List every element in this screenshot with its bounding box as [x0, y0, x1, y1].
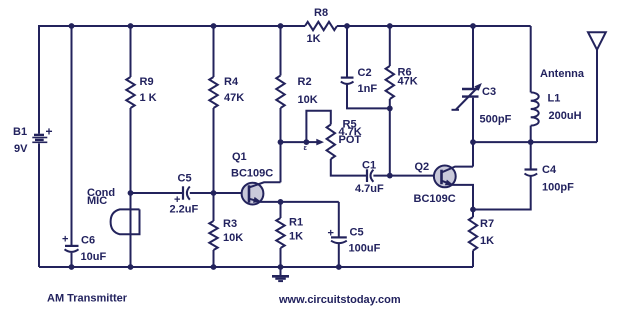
wire R5 bottom to C1 — [331, 159, 367, 176]
wire R4 / R3 branch vertical — [213, 26, 215, 267]
svg-text:R1: R1 — [289, 217, 303, 229]
wire collector node to potentiometer wiper — [281, 141, 307, 143]
resistor R1 — [276, 202, 303, 267]
svg-text:Q1: Q1 — [232, 151, 247, 163]
svg-text:1K: 1K — [480, 235, 494, 247]
svg-text:10K: 10K — [223, 232, 243, 244]
battery B1 — [13, 125, 53, 156]
condenser microphone MIC — [87, 187, 140, 234]
potentiometer R5 4.7K POT — [327, 119, 362, 160]
variable capacitor C3 — [452, 83, 512, 126]
svg-text:C4: C4 — [542, 164, 557, 176]
svg-text:C1: C1 — [362, 160, 376, 172]
svg-text:+: + — [62, 234, 68, 246]
wire C3 branch vertical — [472, 26, 474, 142]
svg-text:4.7uF: 4.7uF — [355, 183, 384, 195]
wire C6 branch vertical — [71, 26, 73, 246]
capacitor C1 4.7uF — [355, 160, 384, 196]
svg-text:+: + — [328, 228, 334, 240]
wire C2 branch and link to R6 — [346, 26, 348, 77]
wire top supply rail right segment — [337, 25, 531, 27]
svg-text:C5: C5 — [350, 227, 364, 239]
wire C6 to ground rail — [71, 253, 73, 267]
inductor L1 — [531, 92, 582, 125]
capacitor C6 — [62, 234, 106, 264]
svg-text:B1: B1 — [13, 126, 27, 138]
svg-text:www.circuitstoday.com: www.circuitstoday.com — [278, 294, 401, 306]
wire C5 100uF to ground rail — [338, 244, 340, 267]
wire R9 / microphone branch vertical — [130, 26, 132, 267]
wire Q2 emitter down — [452, 185, 473, 210]
svg-text:R4: R4 — [224, 76, 239, 88]
svg-text:C6: C6 — [81, 235, 95, 247]
wire Q1 emitter node — [260, 201, 339, 203]
svg-text:200uH: 200uH — [549, 110, 582, 122]
wire L1 branch vertical — [530, 26, 532, 142]
svg-text:1 K: 1 K — [140, 92, 157, 104]
wire C5 to Q1 base node — [190, 192, 249, 194]
wire C1 to Q2 base node — [373, 175, 441, 177]
wire emitter node down to C5 100uF — [338, 202, 340, 237]
wire tank bottom rail to antenna — [473, 141, 597, 143]
svg-text:Antenna: Antenna — [540, 68, 585, 80]
svg-text:100uF: 100uF — [349, 243, 381, 255]
resistor R6 — [386, 66, 418, 99]
svg-text:10uF: 10uF — [81, 251, 107, 263]
transistor Q1 BC109C — [231, 151, 281, 205]
svg-text:2.2uF: 2.2uF — [170, 204, 199, 216]
svg-text:R7: R7 — [480, 218, 494, 230]
svg-text:1nF: 1nF — [358, 83, 378, 95]
svg-text:R9: R9 — [140, 76, 154, 88]
ground symbol — [272, 267, 289, 281]
resistor R7 — [469, 210, 494, 268]
resistor R2 — [276, 76, 317, 108]
svg-text:47K: 47K — [398, 76, 418, 88]
svg-text:R3: R3 — [223, 218, 237, 230]
svg-text:MIC: MIC — [87, 195, 107, 207]
resistor R4 — [209, 76, 244, 108]
svg-text:1K: 1K — [307, 33, 321, 45]
svg-text:BC109C: BC109C — [414, 193, 456, 205]
transistor Q2 BC109C — [414, 161, 474, 205]
svg-text:C2: C2 — [358, 67, 372, 79]
resistor R3 — [209, 218, 243, 250]
wire Q2 collector up to tank — [472, 142, 474, 167]
svg-text:Q2: Q2 — [415, 161, 430, 173]
wire C2 bottom to R6 vertical — [347, 85, 390, 109]
capacitor C5 100uF — [328, 227, 381, 255]
wire wiper tie loop to R5 top — [306, 111, 330, 142]
svg-text:47K: 47K — [224, 92, 244, 104]
svg-text:POT: POT — [339, 134, 362, 146]
svg-text:10K: 10K — [298, 94, 318, 106]
svg-text:R2: R2 — [298, 76, 312, 88]
resistor R8 — [305, 7, 337, 45]
capacitor C5 2.2uF — [170, 173, 199, 216]
svg-text:R8: R8 — [314, 7, 328, 19]
resistor R9 — [126, 76, 156, 108]
svg-text:500pF: 500pF — [480, 114, 512, 126]
capacitor C4 — [473, 142, 574, 209]
svg-text:C5: C5 — [178, 173, 192, 185]
svg-text:9V: 9V — [14, 143, 28, 155]
svg-text:+: + — [46, 125, 53, 139]
svg-text:AM Transmitter: AM Transmitter — [47, 293, 128, 305]
wire top supply rail left segment — [39, 26, 305, 134]
svg-text:1K: 1K — [289, 231, 303, 243]
svg-text:100pF: 100pF — [542, 182, 574, 194]
wire R2 / Q1 collector branch vertical — [280, 26, 282, 182]
wiper arrow into R5 — [304, 139, 325, 152]
wire bottom ground rail — [39, 266, 473, 268]
junction node dots — [69, 23, 534, 270]
svg-text:ε: ε — [304, 145, 308, 152]
wire R6 branch vertical — [389, 26, 391, 176]
svg-text:C3: C3 — [482, 86, 496, 98]
antenna — [540, 32, 606, 142]
wire audio coupling from MIC to C5 — [131, 192, 184, 194]
svg-text:BC109C: BC109C — [231, 168, 273, 180]
svg-text:L1: L1 — [548, 93, 561, 105]
wire battery negative lead down to ground rail — [38, 143, 40, 267]
capacitor C2 — [341, 67, 378, 95]
